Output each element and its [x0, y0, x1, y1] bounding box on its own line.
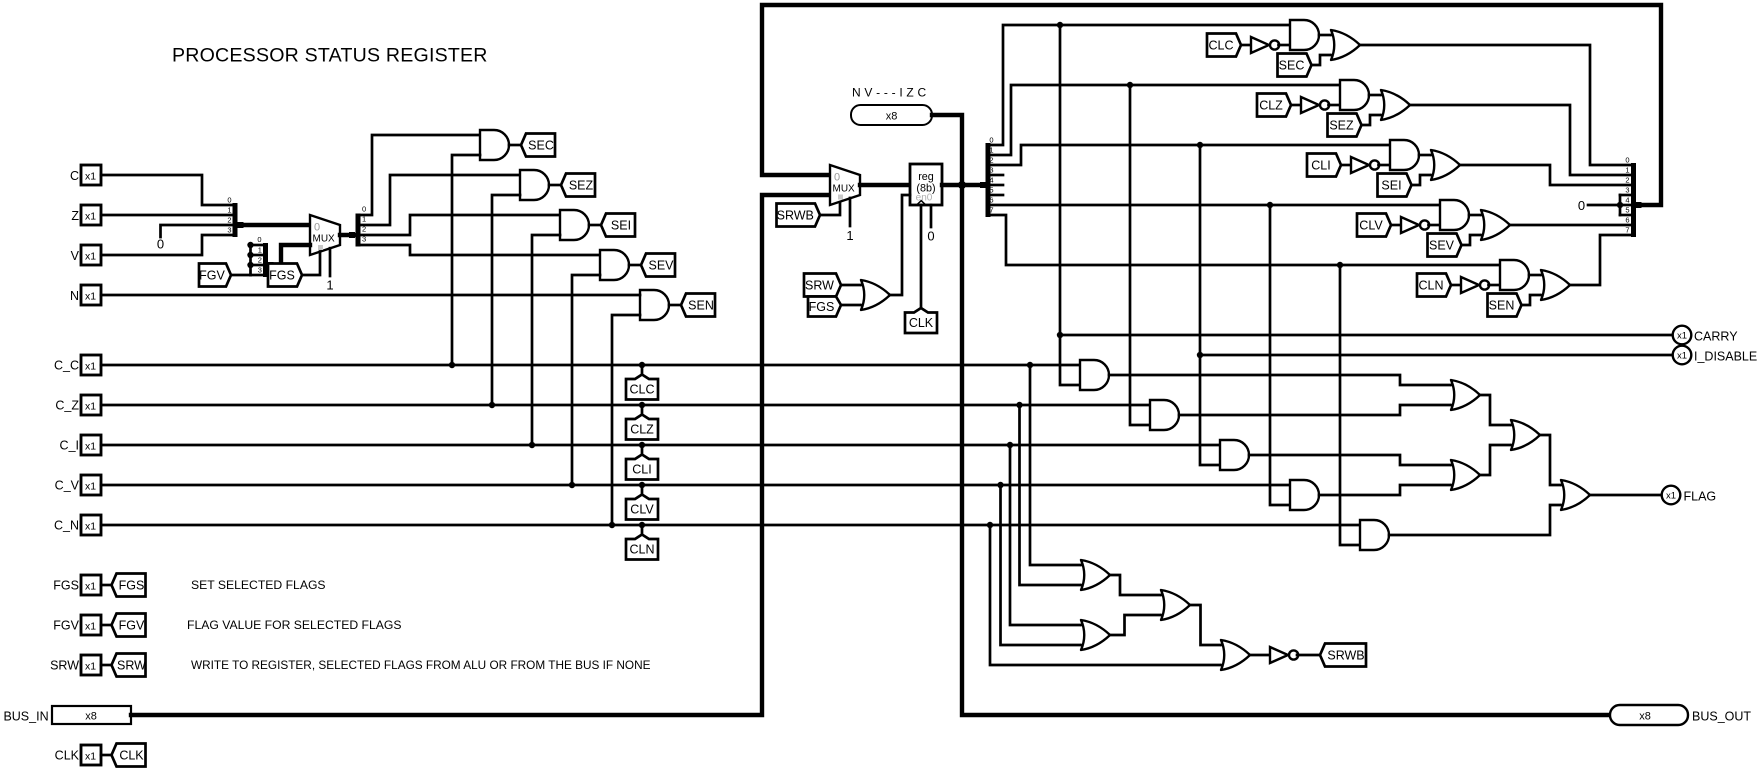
tunnel SRW (bottom left): [112, 654, 146, 677]
svg-text:x8: x8: [1639, 711, 1651, 723]
svg-text:0: 0: [227, 196, 231, 205]
svg-text:SRWB: SRWB: [1327, 648, 1364, 662]
wire AND SEV output to tunnel: [629, 264, 641, 267]
svg-text:2: 2: [989, 156, 993, 165]
wire row N OR output to merger leg 7: [1570, 235, 1631, 285]
svg-text:SRW: SRW: [805, 278, 834, 292]
wire OR W output to register enable: [890, 195, 910, 295]
svg-text:SEI: SEI: [611, 218, 631, 232]
AND gate row V (hold): [1440, 200, 1469, 230]
tunnel SRW (near U3): [804, 274, 841, 297]
merger S5 combined nub: [1636, 202, 1642, 208]
svg-text:SRW: SRW: [117, 658, 146, 672]
svg-text:x8: x8: [886, 111, 898, 123]
svg-text:x1: x1: [85, 171, 96, 183]
svg-text:SRWB: SRWB: [777, 208, 814, 222]
svg-text:x1: x1: [85, 361, 96, 373]
bus splitter S2 to MUX U1 input 1: [272, 245, 310, 265]
wire C_V tap to OR G bottom input: [1001, 485, 1081, 645]
wire constant 0 to merger: [1588, 204, 1620, 207]
wire CLV tunnel to NOT gate: [1391, 224, 1401, 227]
splitter S1 combined nub: [238, 222, 244, 228]
svg-text:FGV: FGV: [53, 619, 79, 633]
tunnel FGV (bottom left): [112, 614, 146, 637]
AND gate SEZ: [520, 170, 549, 200]
svg-text:SEN: SEN: [1489, 298, 1515, 312]
svg-text:CLN: CLN: [1418, 278, 1443, 292]
input pin BUS_IN (x8): [52, 706, 131, 724]
input pin C_C (x1): [81, 355, 101, 375]
wire NOT CLC to AND input: [1279, 44, 1291, 47]
AND gate SEN: [640, 290, 669, 320]
wire CLK pin to tunnel: [101, 754, 112, 757]
wire register clock to CLK tunnel: [920, 205, 923, 309]
svg-text:x1: x1: [1677, 330, 1687, 341]
svg-text:x8: x8: [85, 711, 97, 723]
svg-text:4: 4: [1625, 196, 1629, 205]
bus register Q to splitter S4: [942, 183, 983, 187]
svg-text:CLZ: CLZ: [630, 423, 654, 437]
junction C_C tap: [1027, 362, 1033, 368]
svg-text:CLI: CLI: [632, 463, 651, 477]
wire S4 leg 4 stub: [991, 184, 1004, 187]
AND gate F5 (change detect): [1360, 520, 1389, 550]
svg-text:CLC: CLC: [1208, 38, 1233, 52]
svg-text:6: 6: [989, 196, 993, 205]
wire C feedback vertical to AND F1 input: [1060, 25, 1080, 385]
svg-text:2: 2: [227, 216, 231, 225]
tunnel CLK (bottom left): [112, 744, 146, 767]
wire C row to AND SEC bottom input: [452, 155, 480, 365]
svg-text:0: 0: [1578, 198, 1585, 213]
AND gate row I (hold): [1390, 140, 1419, 170]
wire constant 0 to register reset: [930, 205, 933, 227]
tunnel CLI (top right): [1307, 154, 1341, 177]
tunnel SEZ: [561, 174, 595, 197]
wire AND F4 output to OR C: [1319, 485, 1450, 495]
wire S4 leg 6 (V) row: [991, 204, 1441, 207]
svg-text:x1: x1: [1677, 350, 1687, 361]
svg-text:SEC: SEC: [528, 138, 554, 152]
svg-text:SEC: SEC: [1279, 58, 1305, 72]
input pin SRW (x1): [81, 655, 101, 675]
input pin C (x1): [81, 165, 101, 185]
svg-text:I_DISABLE: I_DISABLE: [1694, 350, 1757, 364]
input pin Z (x1): [81, 205, 101, 225]
svg-text:x1: x1: [85, 751, 96, 763]
svg-text:x1: x1: [85, 441, 96, 453]
NOT gate CLC: [1251, 37, 1269, 53]
bus MUX U2 output to register D: [860, 183, 910, 187]
wire V input to splitter S1 leg 3: [101, 235, 232, 255]
AND gate SEI: [560, 210, 589, 240]
wire OR F output to OR H: [1190, 605, 1220, 645]
OR gate row V (set): [1480, 210, 1510, 240]
input pin V (x1): [81, 245, 101, 265]
svg-text:5: 5: [989, 186, 993, 195]
svg-text:CLN: CLN: [629, 543, 654, 557]
svg-text:C_I: C_I: [60, 439, 79, 453]
svg-text:SEZ: SEZ: [1329, 118, 1354, 132]
svg-text:x1: x1: [85, 521, 96, 533]
junction FGV fan bit2: [247, 262, 253, 268]
AND gate SEV: [600, 250, 629, 280]
svg-text:SEN: SEN: [688, 298, 714, 312]
wire I_DISABLE output row: [1200, 354, 1673, 357]
svg-text:PROCESSOR STATUS REGISTER: PROCESSOR STATUS REGISTER: [172, 45, 488, 67]
junction C_N tap: [987, 522, 993, 528]
junction SEV tap on row: [569, 482, 575, 488]
NOT gate CLZ: [1301, 97, 1319, 113]
svg-text:FGS: FGS: [53, 579, 79, 593]
wire N feedback vertical to AND F5 input: [1340, 265, 1360, 545]
wire C input to splitter S1 leg 0: [101, 175, 232, 205]
svg-text:SEI: SEI: [1381, 178, 1401, 192]
wire FGS tunnel to OR W bottom input: [841, 304, 860, 307]
wire NOT CLI to AND input: [1379, 164, 1391, 167]
junction SEN tap on row: [609, 522, 615, 528]
multiplexer U1 (MUX): [310, 215, 340, 255]
wire AND SEI output to tunnel: [589, 224, 601, 227]
svg-text:0: 0: [834, 172, 840, 184]
OR gate row C (set): [1330, 30, 1360, 60]
wire C_N row: [101, 524, 1360, 527]
wire S4 leg 5 stub: [991, 194, 1004, 197]
svg-text:5: 5: [1625, 206, 1629, 215]
svg-text:3: 3: [258, 266, 262, 275]
wire row C OR output to merger leg 0: [1360, 45, 1631, 165]
wire Z input to splitter S1 leg 1: [101, 214, 232, 217]
bus MUX U1 output to splitter S3: [340, 233, 354, 237]
svg-text:2: 2: [1625, 176, 1629, 185]
tunnel CLC (on row): [626, 375, 658, 400]
wire FGS pin to tunnel: [101, 584, 112, 587]
svg-text:x1: x1: [85, 581, 96, 593]
wire C_I row: [101, 444, 1220, 447]
tunnel CLN (on row): [626, 535, 658, 560]
svg-text:0: 0: [362, 205, 366, 214]
junction constant 0 fan: [1617, 202, 1623, 208]
wire merger leg 5: [1620, 214, 1631, 217]
wire AND row N output to OR input: [1529, 274, 1540, 277]
svg-text:MUX: MUX: [313, 234, 336, 245]
wire C row to AND SEN bottom input: [612, 315, 640, 525]
wire merger leg 3: [1620, 194, 1631, 197]
OR gate A: [1450, 380, 1480, 410]
wire SRW tunnel to OR W top input: [841, 284, 860, 287]
svg-text:CLZ: CLZ: [1259, 98, 1283, 112]
svg-text:CLK: CLK: [909, 316, 934, 330]
svg-text:SEV: SEV: [648, 258, 674, 272]
junction CLZ stub on row: [639, 402, 645, 408]
svg-text:FLAG: FLAG: [1684, 490, 1717, 504]
wire OR B output to OR D: [1540, 435, 1560, 485]
probe x8 (register value): [851, 105, 932, 125]
input pin N (x1): [81, 285, 101, 305]
svg-text:FGS: FGS: [809, 300, 835, 314]
wire SRW pin to tunnel: [101, 664, 112, 667]
wire NOT CLV to AND input: [1429, 224, 1441, 227]
tunnel FGS (near U1): [268, 264, 302, 287]
wire merger leg 4: [1620, 204, 1631, 207]
NOT gate CLN: [1461, 277, 1479, 293]
svg-text:x1: x1: [85, 621, 96, 633]
tunnel CLC (top right): [1207, 34, 1241, 57]
svg-text:2: 2: [258, 256, 262, 265]
tunnel CLZ (on row): [626, 415, 658, 440]
splitter S3 bar: [356, 214, 361, 247]
wire SEC tunnel to OR input: [1312, 55, 1331, 65]
wire C_N tap to OR H bottom input: [990, 525, 1220, 665]
svg-text:MUX: MUX: [833, 184, 856, 195]
OR gate H: [1220, 640, 1250, 670]
wire row V OR output to merger leg 6: [1510, 224, 1631, 227]
splitter S3 combined nub: [349, 232, 355, 238]
input pin FGS (x1): [81, 575, 101, 595]
wire OR D output to FLAG pin: [1590, 494, 1662, 497]
svg-text:N V - - - I Z C: N V - - - I Z C: [852, 86, 926, 100]
junction C_V tap: [997, 482, 1003, 488]
wire S4 leg 2 (I) row: [991, 145, 1391, 165]
wire S4 leg 0 (C) row: [991, 25, 1291, 145]
svg-text:SEZ: SEZ: [569, 178, 594, 192]
svg-text:N: N: [70, 289, 79, 303]
bus probe x8 link to register output: [932, 115, 962, 185]
wire S3 leg 2 to AND SEI top input: [361, 215, 561, 235]
tunnel CLV (on row): [626, 495, 658, 520]
wire splitter S2 leg 0: [251, 244, 264, 247]
wire NOT CLN to AND input: [1489, 284, 1501, 287]
junction C row / feedback: [1057, 22, 1063, 28]
NOT gate SRWB: [1270, 647, 1288, 663]
svg-text:0: 0: [314, 222, 320, 234]
wire AND row I output to OR input: [1419, 154, 1430, 157]
svg-text:CLV: CLV: [1359, 218, 1383, 232]
wire row I OR output to merger leg 2: [1460, 165, 1631, 185]
tunnel SEV: [641, 254, 675, 277]
svg-text:C_Z: C_Z: [55, 399, 79, 413]
OR gate row Z (set): [1380, 90, 1410, 120]
AND gate SEC: [480, 130, 509, 160]
wire C_C tap to OR E top input: [1030, 365, 1080, 565]
svg-text:1: 1: [227, 206, 231, 215]
AND gate row N (hold): [1500, 260, 1529, 290]
wire row Z OR output to merger leg 1: [1410, 105, 1631, 175]
tunnel SRWB (near U2): [777, 204, 821, 227]
wire NOT output to SRWB tunnel: [1297, 654, 1320, 657]
svg-text:C_N: C_N: [54, 519, 79, 533]
junction CLC stub on row: [639, 362, 645, 368]
junction CARRY tap on C feedback: [1057, 332, 1063, 338]
wire splitter S2 leg 2: [251, 264, 264, 267]
wire OR E output to OR F: [1110, 575, 1160, 595]
wire SEI tunnel to OR input: [1412, 175, 1431, 185]
AND gate row Z (hold): [1340, 80, 1369, 110]
tunnel SEC: [521, 134, 555, 157]
wire FGV pin to tunnel: [101, 624, 112, 627]
svg-text:BUS_OUT: BUS_OUT: [1692, 710, 1751, 724]
tunnel FGV (near U1): [199, 264, 231, 287]
output pin I_DISABLE (x1): [1673, 346, 1692, 365]
svg-text:FGS: FGS: [269, 268, 295, 282]
OR gate F: [1160, 590, 1190, 620]
svg-text:x1: x1: [85, 251, 96, 263]
tunnel SEC (top right): [1278, 54, 1312, 77]
svg-text:1: 1: [326, 278, 333, 293]
wire constant 1 to MUX U1 enable: [329, 248, 332, 276]
wire I feedback vertical to AND F3 input: [1200, 145, 1220, 465]
wire AND F1 output to OR A: [1109, 375, 1450, 385]
wire C_Z tap to OR E bottom input: [1020, 405, 1081, 585]
splitter S2 bar: [263, 243, 268, 277]
wire S3 leg 3 to AND SEV top input: [361, 245, 601, 255]
wire constant 1 to MUX U2 enable: [849, 198, 852, 226]
wire SRWB tunnel to MUX U2 select: [820, 202, 840, 216]
svg-text:3: 3: [1625, 186, 1629, 195]
splitter S1 bar: [233, 203, 238, 237]
tunnel SRWB (bottom): [1320, 644, 1366, 667]
input pin C_I (x1): [81, 435, 101, 455]
bus splitter S1 to MUX U1 input 0: [242, 223, 310, 227]
svg-text:3: 3: [989, 166, 993, 175]
junction C_Z tap: [1016, 402, 1022, 408]
svg-text:FGV: FGV: [199, 268, 225, 282]
svg-text:1: 1: [846, 228, 853, 243]
wire AND F3 output to OR C: [1249, 455, 1450, 465]
junction SEI tap on row: [529, 442, 535, 448]
junction V row / feedback: [1267, 202, 1273, 208]
wire OR C output to OR B: [1480, 445, 1510, 475]
svg-text:7: 7: [1625, 226, 1629, 235]
junction I row / feedback: [1197, 142, 1203, 148]
wire AND F2 output to OR A: [1179, 405, 1450, 415]
junction N row / feedback: [1337, 262, 1343, 268]
register U3 reg (8b): [910, 164, 942, 205]
junction I_DISABLE tap on I feedback: [1197, 352, 1203, 358]
svg-text:x1: x1: [85, 211, 96, 223]
svg-text:0: 0: [257, 235, 261, 244]
OR gate W (SRW or FGS): [860, 280, 890, 310]
junction SEC tap on row: [449, 362, 455, 368]
svg-text:CLI: CLI: [1311, 158, 1330, 172]
wire AND row Z output to OR input: [1369, 94, 1380, 97]
OR gate row I (set): [1430, 150, 1460, 180]
tunnel CLN (top right): [1417, 274, 1451, 297]
junction CLV stub on row: [639, 482, 645, 488]
svg-text:V: V: [71, 249, 80, 263]
svg-text:6: 6: [1625, 216, 1629, 225]
wire stub to tunnel CLN: [641, 525, 644, 536]
wire V feedback vertical to AND F4 input: [1270, 205, 1290, 505]
wire SEN tunnel to OR input: [1522, 295, 1541, 305]
wire S4 leg 7 (N) row: [991, 215, 1501, 265]
wire OR A output to OR B: [1480, 395, 1510, 425]
wire C_Z row: [101, 404, 1150, 407]
NOT gate CLV: [1401, 217, 1419, 233]
wire C row to AND SEI bottom input: [532, 235, 560, 445]
output pin BUS_OUT (x8): [1610, 705, 1688, 725]
svg-text:1: 1: [1625, 166, 1629, 175]
wire S4 leg 1 (Z) row: [991, 85, 1341, 155]
junction register output bus: [958, 181, 966, 189]
OR gate G: [1080, 620, 1110, 650]
wire stub to tunnel CLC: [641, 365, 644, 376]
tunnel CLK (below register): [905, 308, 937, 333]
AND gate F3 (change detect): [1220, 440, 1249, 470]
wire AND row C output to OR input: [1319, 34, 1330, 37]
splitter S2 combined nub: [268, 262, 274, 268]
wire N input to AND SEN top input: [101, 294, 640, 297]
svg-text:FGV: FGV: [119, 618, 145, 632]
OR gate E: [1080, 560, 1110, 590]
wire FGV fan vertical: [249, 245, 252, 275]
wire S3 leg 0 to AND SEC top input: [361, 135, 481, 215]
svg-text:1: 1: [258, 246, 262, 255]
wire AND SEZ output to tunnel: [549, 184, 561, 187]
svg-text:CLC: CLC: [629, 383, 654, 397]
svg-text:CARRY: CARRY: [1694, 330, 1738, 344]
wire AND F5 output to OR D: [1389, 505, 1560, 535]
splitter S4 bar: [986, 143, 991, 217]
wire SEZ tunnel to OR input: [1362, 115, 1381, 125]
tunnel CLV (top right): [1357, 214, 1391, 237]
wire splitter S2 leg 1: [251, 254, 264, 257]
svg-text:en0: en0: [916, 192, 933, 203]
merger S5 bar: [1631, 163, 1636, 237]
svg-text:4: 4: [989, 176, 993, 185]
wire CLI tunnel to NOT gate: [1341, 164, 1351, 167]
svg-text:x1: x1: [85, 661, 96, 673]
wire constant 0 to splitter S1 leg 2: [161, 225, 233, 237]
wire S4 leg 3 stub: [991, 174, 1004, 177]
tunnel FGS (near U3): [808, 297, 841, 317]
svg-text:3: 3: [227, 226, 231, 235]
wire CLN tunnel to NOT gate: [1451, 284, 1461, 287]
bus BUS_IN to MUX U2 input 1: [131, 195, 830, 715]
bus register Q down to BUS_OUT: [962, 185, 1610, 715]
wire Z feedback vertical to AND F2 input: [1130, 85, 1150, 425]
wire CLZ tunnel to NOT gate: [1291, 104, 1301, 107]
OR gate C: [1450, 460, 1480, 490]
wire S3 leg 1 to AND SEZ top input: [361, 175, 521, 225]
wire AND SEN output to tunnel: [669, 304, 681, 307]
svg-text:C_V: C_V: [55, 479, 80, 493]
svg-text:SET SELECTED FLAGS: SET SELECTED FLAGS: [191, 578, 326, 592]
wire C row to AND SEV bottom input: [572, 275, 600, 485]
svg-text:CLV: CLV: [630, 503, 654, 517]
wire CARRY output row: [1060, 334, 1673, 337]
svg-text:1: 1: [989, 146, 993, 155]
AND gate F4 (change detect): [1290, 480, 1319, 510]
tunnel SEN: [681, 294, 715, 317]
svg-text:CLK: CLK: [55, 749, 80, 763]
AND gate F1 (change detect): [1080, 360, 1109, 390]
wire stub to tunnel CLZ: [641, 405, 644, 416]
NOT gate CLI: [1351, 157, 1369, 173]
svg-text:FGS: FGS: [119, 578, 145, 592]
AND gate row C (hold): [1290, 20, 1319, 50]
svg-text:SEV: SEV: [1429, 238, 1455, 252]
wire FGV tunnel to splitter S2 legs: [231, 274, 251, 277]
wire AND row V output to OR input: [1469, 214, 1480, 217]
svg-text:Z: Z: [71, 209, 79, 223]
tunnel FGS (bottom left): [112, 574, 146, 597]
svg-text:C: C: [70, 169, 79, 183]
junction FGV fan bit0: [247, 242, 253, 248]
tunnel CLI (on row): [626, 455, 658, 480]
wire AND SEC output to tunnel: [509, 144, 521, 147]
input pin C_V (x1): [81, 475, 101, 495]
